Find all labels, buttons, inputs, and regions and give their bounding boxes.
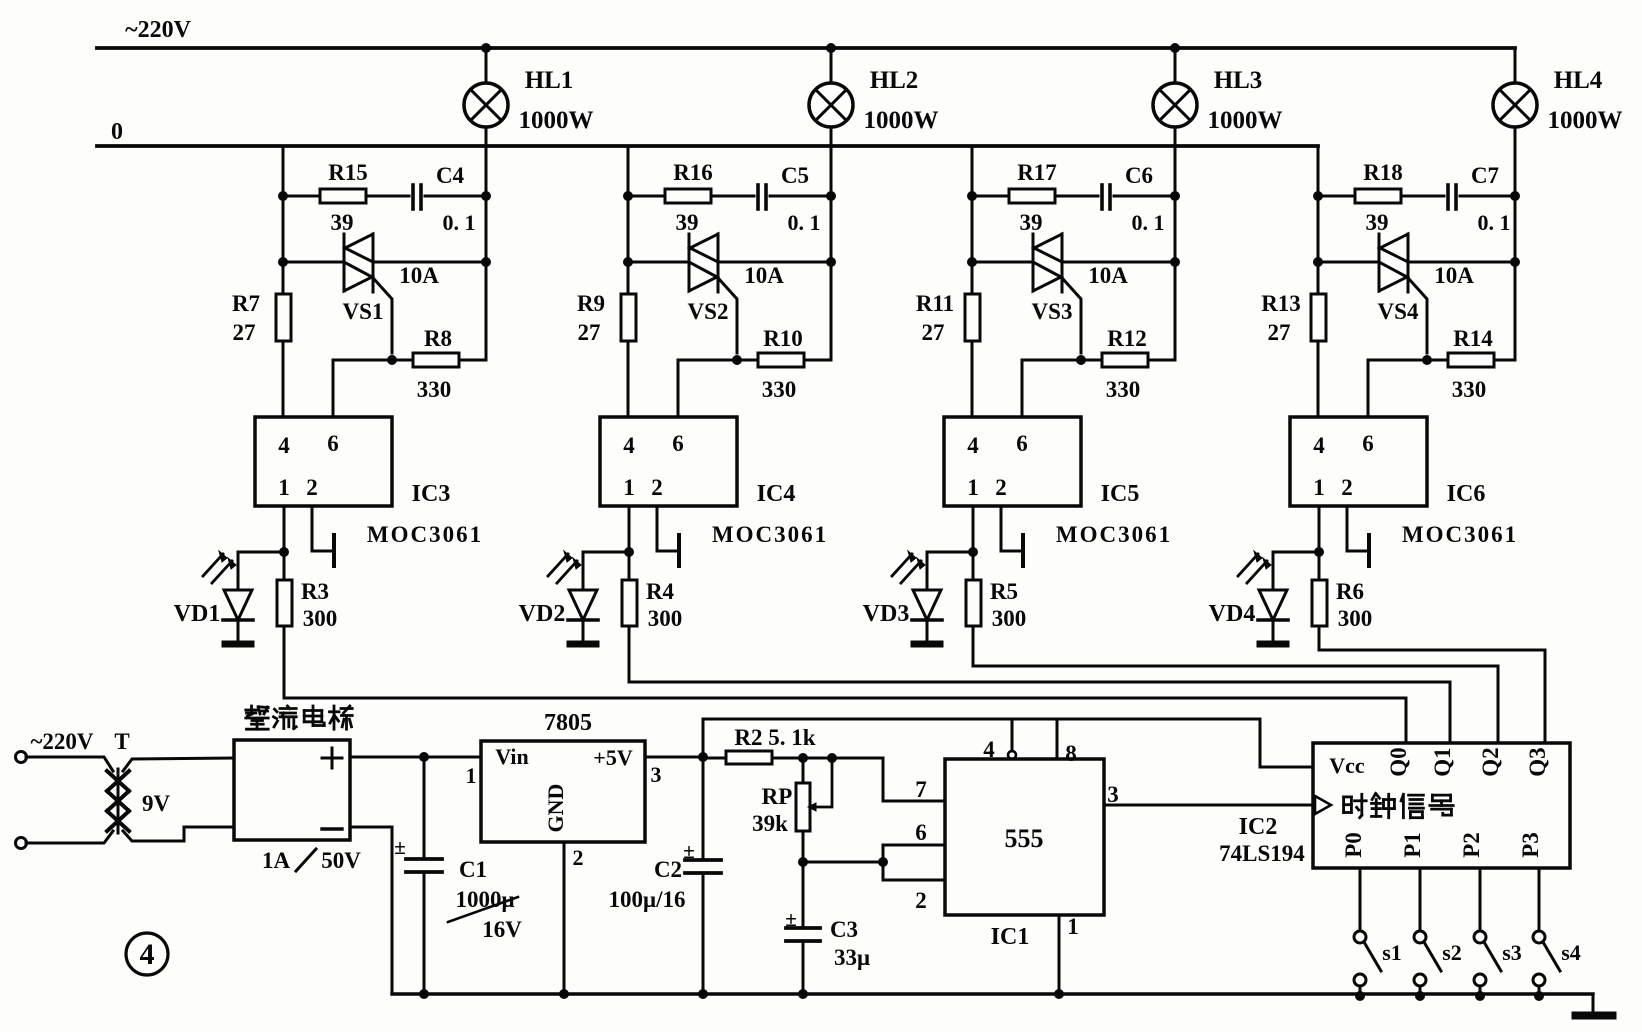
svg-text:R13: R13 [1261,291,1301,316]
svg-text:39: 39 [676,210,699,235]
capacitor C5 0.1 [758,163,836,235]
LED VD2 [519,551,629,647]
svg-text:HL4: HL4 [1554,67,1603,94]
svg-text:RP: RP [762,784,793,809]
wire mains to transformer [26,757,113,843]
svg-text:Q1: Q1 [1430,747,1455,776]
svg-text:VS1: VS1 [343,299,384,324]
svg-text:4: 4 [140,938,155,971]
svg-text:C3: C3 [830,917,858,942]
svg-text:4: 4 [967,433,979,458]
resistor R16 39 [628,160,754,235]
svg-text:±: ± [394,835,406,859]
resistor R4 300 [622,579,682,631]
svg-text:R7: R7 [232,291,260,316]
capacitor C3 33u [785,862,870,999]
svg-text:74LS194: 74LS194 [1219,841,1305,866]
svg-text:VD4: VD4 [1209,601,1256,627]
svg-text:9V: 9V [142,791,171,816]
svg-text:330: 330 [417,377,452,402]
svg-text:100μ/16: 100μ/16 [609,887,686,912]
svg-text:HL1: HL1 [525,67,574,94]
wire 555 pin3 clock to IC2 [1104,804,1313,807]
wire corner to HL4 [0,0,1,1]
timer IC1 555 [915,737,1119,950]
svg-text:6: 6 [915,820,927,845]
triac VS3 10A [972,234,1180,353]
svg-text:s2: s2 [1442,940,1462,965]
svg-text:1: 1 [1067,914,1079,939]
figure number 4 [126,933,168,975]
LED VD3 [863,551,973,647]
svg-text:R14: R14 [1453,326,1493,351]
svg-text:VS2: VS2 [688,299,729,324]
svg-text:HL2: HL2 [870,67,919,94]
resistor R2 5.1k [703,725,837,764]
svg-text:0. 1: 0. 1 [1132,210,1165,235]
svg-text:VD3: VD3 [863,601,910,627]
wire 555 pin8 [1056,719,1059,759]
svg-text:s1: s1 [1382,940,1402,965]
svg-text:10A: 10A [399,263,439,288]
svg-text:39: 39 [1366,210,1389,235]
wire bridge- to ground bus [350,827,392,994]
LED VD4 [1209,551,1319,647]
wire RP bottom to pins 6 and 2 [798,845,945,880]
ground pin2 IC5 [1001,506,1023,566]
triac VS2 10A [628,234,836,353]
svg-text:T: T [114,729,129,754]
resistor R3 300 [277,579,337,631]
resistor R18 39 [1318,160,1444,235]
svg-text:300: 300 [303,606,338,631]
resistor R11 27 [916,291,980,345]
svg-text:R4: R4 [646,579,675,604]
svg-text:~220V: ~220V [125,17,191,43]
svg-text:±: ± [683,839,695,863]
label ~220V input [30,729,129,754]
svg-text:3: 3 [1107,782,1119,807]
svg-text:39k: 39k [752,811,788,836]
terminal ~220V top [16,752,27,763]
svg-text:C2: C2 [654,857,682,882]
ground pin2 IC4 [657,506,679,566]
svg-text:16V: 16V [482,917,522,942]
opto-triac IC4 MOC3061 [600,417,828,547]
capacitor C7 0.1 [1448,163,1520,235]
svg-text:1: 1 [466,763,477,788]
lamp HL3 1000W [1153,43,1283,360]
svg-text:VS3: VS3 [1032,299,1073,324]
svg-text:IC1: IC1 [991,924,1030,950]
svg-text:P0: P0 [1341,832,1366,858]
svg-text:MOC3061: MOC3061 [1056,522,1172,547]
svg-text:1: 1 [623,475,635,500]
svg-text:C6: C6 [1125,163,1153,188]
svg-text:3: 3 [651,762,662,787]
wire left branch ch1 [278,146,288,417]
svg-text:C7: C7 [1471,163,1499,188]
svg-text:2: 2 [651,475,663,500]
svg-text:6: 6 [1362,431,1374,456]
svg-text:0. 1: 0. 1 [788,210,821,235]
bridge rectifier 1A/50V [234,740,361,873]
resistor R9 27 [577,291,636,345]
resistor R7 27 [232,291,291,345]
svg-text:4: 4 [1313,433,1325,458]
svg-text:7805: 7805 [544,710,592,736]
svg-text:4: 4 [983,737,995,762]
svg-text:R11: R11 [916,291,954,316]
resistor R12 330 [1076,326,1175,402]
svg-text:2: 2 [995,475,1007,500]
label 整流电桥 (bridge rectifier) [246,706,352,729]
svg-text:1: 1 [967,475,979,500]
svg-text:330: 330 [1452,377,1487,402]
svg-text:MOC3061: MOC3061 [1402,522,1518,547]
label 0 (neutral) [111,119,123,145]
svg-text:R9: R9 [577,291,605,316]
wire left branch ch4 [1313,146,1323,417]
wire R2 to 555 pin7 [832,758,945,801]
svg-text:50V: 50V [321,848,361,873]
svg-text:IC4: IC4 [757,481,796,507]
capacitor C6 0.1 [1102,163,1180,235]
wire VD2 bus to Q1 [629,682,1450,743]
svg-text:10A: 10A [744,263,784,288]
svg-text:R2 5. 1k: R2 5. 1k [734,725,815,750]
svg-text:27: 27 [922,320,945,345]
resistor R10 330 [732,326,831,402]
ground pin2 IC3 [312,506,334,566]
svg-text:10A: 10A [1434,263,1474,288]
svg-text:R15: R15 [328,160,368,185]
triac VS4 10A [1318,234,1520,353]
svg-text:VD1: VD1 [174,601,221,627]
svg-text:~220V: ~220V [30,729,93,754]
potentiometer RP 39k [752,758,832,862]
regulator 7805 [466,710,662,870]
svg-text:330: 330 [762,377,797,402]
svg-text:2: 2 [1341,475,1353,500]
svg-text:R10: R10 [763,326,803,351]
svg-text:MOC3061: MOC3061 [712,522,828,547]
transformer T 9V winding [107,769,170,833]
ground pin2 IC6 [1347,506,1369,566]
svg-text:330: 330 [1106,377,1141,402]
svg-text:0: 0 [111,119,123,145]
svg-text:6: 6 [672,431,684,456]
wire bridge+ to 7805 [350,752,481,762]
resistor R5 300 [966,579,1026,631]
wire VD1 bus to Q0 [284,698,1406,743]
svg-text:R16: R16 [673,160,713,185]
svg-text:P1: P1 [1400,832,1425,858]
svg-text:s3: s3 [1502,940,1522,965]
svg-text:MOC3061: MOC3061 [367,522,483,547]
svg-text:Q0: Q0 [1386,747,1411,776]
svg-text:IC6: IC6 [1447,481,1486,507]
svg-text:27: 27 [1268,320,1291,345]
wire 0 neutral rail [97,144,1318,148]
wire VD4 bus to Q3 [1319,650,1545,743]
svg-text:6: 6 [1016,431,1028,456]
svg-text:300: 300 [992,606,1027,631]
wire gate to pin6 ch2 [678,360,737,417]
wire VD3 bus to Q2 [973,666,1498,743]
lamp HL2 1000W [809,43,939,360]
svg-text:555: 555 [1005,824,1044,853]
svg-text:R6: R6 [1336,579,1364,604]
capacitor C1 1000u/16V [394,757,522,999]
svg-text:VD2: VD2 [519,601,566,627]
svg-text:4: 4 [623,433,635,458]
wire ground bus [392,994,1593,1013]
svg-text:C1: C1 [459,857,487,882]
svg-text:R17: R17 [1017,160,1057,185]
svg-text:IC2: IC2 [1239,814,1278,840]
wire pin1 down ch1 [279,506,289,698]
capacitor C2 100u/16 [609,757,721,999]
resistor R8 330 [387,326,486,402]
svg-text:39: 39 [331,210,354,235]
svg-text:s4: s4 [1561,940,1581,965]
svg-text:27: 27 [233,320,256,345]
wire 7805 GND pin2 [559,842,569,999]
svg-text:C5: C5 [781,163,809,188]
wire 555 pin4 [1008,719,1016,759]
svg-text:C4: C4 [436,163,465,188]
svg-text:P3: P3 [1518,832,1543,858]
svg-text:39: 39 [1020,210,1043,235]
svg-text:R8: R8 [424,326,452,351]
svg-text:Q2: Q2 [1478,747,1503,776]
svg-text:R18: R18 [1363,160,1403,185]
svg-text:P2: P2 [1459,832,1484,858]
svg-text:Vin: Vin [495,744,528,769]
svg-text:4: 4 [278,433,290,458]
svg-text:300: 300 [1338,606,1373,631]
switch s2 on P1 [1414,868,1462,1001]
svg-text:R12: R12 [1107,326,1147,351]
svg-text:2: 2 [915,888,927,913]
svg-text:1A: 1A [262,848,291,873]
opto-triac IC5 MOC3061 [944,417,1172,547]
svg-text:10A: 10A [1088,263,1128,288]
wire left branch ch2 [623,146,633,417]
resistor R6 300 [1312,579,1372,631]
resistor R15 39 [283,160,409,235]
opto-triac IC6 MOC3061 [1290,417,1518,547]
label 时钟信号 (clock signal) [1344,794,1454,818]
wire pin1 down ch2 [624,506,634,682]
resistor R17 39 [972,160,1098,235]
wire ~220V top rail [97,46,1515,50]
svg-text:±: ± [785,907,797,931]
lamp HL1 1000W [464,43,594,360]
switch s4 on P3 [1533,868,1581,1001]
svg-text:HL3: HL3 [1214,67,1263,94]
svg-text:6: 6 [327,431,339,456]
wire left branch ch3 [967,146,977,417]
lamp HL4 1000W [1493,48,1623,360]
wire gate to pin6 ch3 [1022,360,1081,417]
terminal ~220V bottom [16,838,27,849]
svg-text:2: 2 [306,475,318,500]
wire gate to pin6 ch4 [1368,360,1427,417]
svg-text:300: 300 [648,606,683,631]
capacitor C4 0.1 [413,163,491,235]
svg-text:R5: R5 [990,579,1018,604]
triac VS1 10A [283,234,491,353]
svg-text:1: 1 [1313,475,1325,500]
svg-text:2: 2 [573,845,584,870]
resistor R13 27 [1261,291,1326,345]
svg-text:0. 1: 0. 1 [443,210,476,235]
label ~220V (mains) [125,17,191,43]
svg-text:R3: R3 [301,579,329,604]
svg-text:8: 8 [1065,741,1077,766]
ground symbol [1572,1012,1616,1019]
svg-text:IC3: IC3 [412,481,451,507]
svg-text:IC5: IC5 [1101,481,1140,507]
svg-text:1000W: 1000W [1208,107,1283,134]
svg-text:27: 27 [578,320,601,345]
opto-triac IC3 MOC3061 [255,417,483,547]
svg-text:GND: GND [543,784,568,833]
svg-text:VS4: VS4 [1378,299,1419,324]
wire +5V out [645,752,708,762]
svg-text:33μ: 33μ [834,945,870,970]
wire gate to pin6 ch1 [333,360,392,417]
svg-text:1000W: 1000W [864,107,939,134]
svg-text:Q3: Q3 [1525,747,1550,776]
wire pin1 down ch3 [968,506,978,666]
resistor R14 330 [1422,326,1515,402]
wire pin1 down ch4 [1314,506,1324,650]
svg-text:Vcc: Vcc [1329,753,1365,778]
switch s1 on P0 [1354,868,1402,1001]
shift register IC2 74LS194 [1219,743,1570,868]
svg-text:7: 7 [915,777,927,802]
wire +5V rail to IC2 Vcc [703,719,1313,767]
wire transformer to bridge [123,758,234,841]
svg-text:1000W: 1000W [1548,107,1623,134]
switch s3 on P2 [1474,868,1522,1001]
svg-text:1: 1 [278,475,290,500]
svg-text:0. 1: 0. 1 [1478,210,1511,235]
svg-text:+5V: +5V [593,745,633,770]
wire 555 pin1 to ground bus [1054,915,1064,999]
svg-text:1000W: 1000W [519,107,594,134]
LED VD1 [174,551,284,647]
